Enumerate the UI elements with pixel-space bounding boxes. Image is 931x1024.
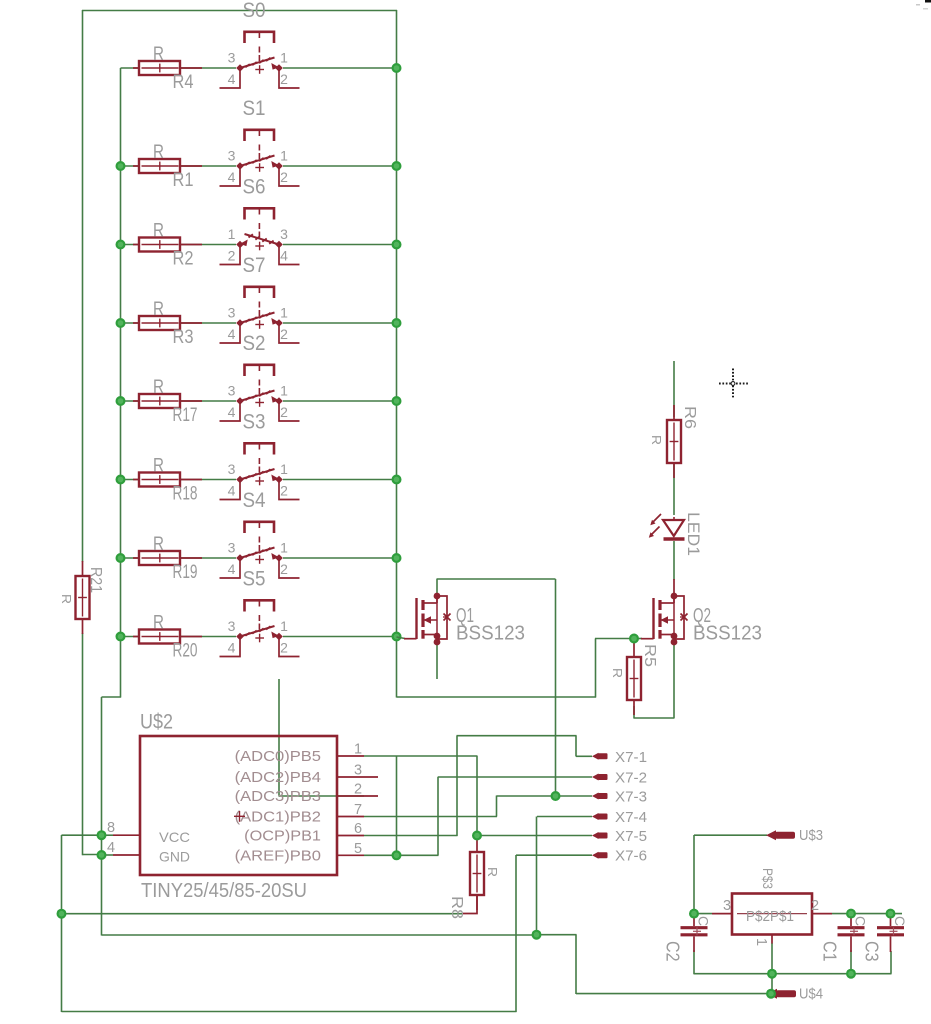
switch S6 bbox=[220, 176, 300, 265]
wire pin1 net vertical bbox=[476, 756, 478, 836]
svg-text:S6: S6 bbox=[243, 176, 266, 199]
svg-text:S1: S1 bbox=[243, 97, 266, 120]
junction S5 left bus bbox=[116, 632, 126, 642]
wire row S3 middle bbox=[180, 479, 236, 481]
switch S3 bbox=[220, 411, 300, 500]
svg-text:R3: R3 bbox=[173, 327, 194, 348]
svg-text:P$2: P$2 bbox=[746, 908, 770, 925]
resistor R4 bbox=[133, 44, 202, 93]
wire Q2 gate connector bbox=[634, 638, 642, 640]
junction S6 left bus bbox=[116, 240, 126, 250]
wire X7-4 vertical bbox=[536, 817, 538, 936]
svg-text:S0: S0 bbox=[243, 0, 266, 22]
svg-text:R21: R21 bbox=[87, 567, 104, 593]
svg-text:GND: GND bbox=[159, 849, 190, 865]
wire U$4 riser bbox=[771, 974, 773, 995]
svg-text:4: 4 bbox=[228, 483, 236, 499]
svg-text:R5: R5 bbox=[641, 644, 658, 667]
wire gnd rail to right riser bbox=[537, 934, 577, 936]
svg-text:X7-4: X7-4 bbox=[615, 810, 647, 826]
wire reg right rail bbox=[832, 913, 902, 915]
wire VCC pin wire bbox=[102, 834, 114, 836]
resistor R19 bbox=[133, 534, 202, 583]
wire row S7 left bbox=[121, 322, 140, 324]
svg-text:4: 4 bbox=[228, 71, 236, 87]
svg-text:(ADC2)PB4: (ADC2)PB4 bbox=[235, 769, 321, 786]
svg-text:VCC: VCC bbox=[159, 829, 190, 845]
junction S6 right bus bbox=[392, 240, 402, 250]
op-amp U1 substitute - IC U$2 body bbox=[140, 711, 337, 903]
svg-text:R6: R6 bbox=[681, 406, 698, 429]
wire row S1 middle bbox=[180, 165, 236, 167]
svg-text:R: R bbox=[153, 377, 164, 398]
connector pin X7-6 bbox=[592, 849, 647, 865]
switch S2 bbox=[220, 332, 300, 421]
wire pin6 net horizontal bbox=[364, 835, 458, 837]
screen corner artifact bbox=[916, 0, 931, 10]
junction node 7 bbox=[629, 634, 639, 644]
wire LED to Q2 drain bbox=[673, 541, 675, 596]
svg-text:4: 4 bbox=[107, 840, 115, 856]
wire reg left pin wire bbox=[694, 913, 712, 915]
wire row S3 right bbox=[283, 479, 397, 481]
svg-text:R: R bbox=[153, 44, 164, 65]
wire Q1 drain vertical to X7-3 bbox=[555, 579, 557, 796]
svg-text:U$3: U$3 bbox=[799, 828, 823, 844]
svg-text:1: 1 bbox=[753, 938, 769, 946]
LED LED1 bbox=[649, 512, 702, 556]
svg-text:4: 4 bbox=[228, 561, 236, 577]
svg-text:C2: C2 bbox=[663, 941, 683, 962]
transistor Q2 bbox=[641, 593, 762, 646]
pin 1 U$2 bbox=[235, 742, 364, 766]
wire C1 lower bbox=[850, 950, 852, 974]
wire left outer vertical (to R21 top) bbox=[82, 10, 84, 562]
wire row S1 right bbox=[283, 165, 397, 167]
wire row S7 middle bbox=[180, 322, 236, 324]
wire U$3 horizontal bbox=[694, 834, 767, 836]
wire R8-bottom horizontal bbox=[62, 913, 463, 915]
switch S4 bbox=[220, 489, 300, 578]
pin 8 U$2 bbox=[107, 820, 190, 845]
svg-text:X7-6: X7-6 bbox=[615, 849, 647, 865]
svg-text:2: 2 bbox=[280, 326, 288, 342]
origin cross U$2 bbox=[234, 811, 245, 822]
wire bottom-right riser X7-6 bbox=[515, 855, 517, 1012]
svg-text:C3: C3 bbox=[862, 941, 882, 962]
capacitor C3 bbox=[862, 916, 908, 962]
wire row S4 left bbox=[121, 557, 140, 559]
svg-text:R: R bbox=[153, 221, 164, 242]
wire row S0 middle bbox=[180, 67, 236, 69]
wire Q1 drain up bbox=[436, 579, 438, 596]
svg-text:R8: R8 bbox=[448, 896, 465, 919]
pin 7 U$2 bbox=[235, 802, 364, 826]
wire LED supply vertical bbox=[673, 361, 675, 417]
svg-text:2: 2 bbox=[280, 483, 288, 499]
wire left outer vertical (R21 bottom to GND row) bbox=[82, 633, 84, 855]
svg-text:R: R bbox=[153, 613, 164, 634]
wire row S4 right bbox=[283, 557, 397, 559]
resistor R5 bbox=[610, 642, 658, 715]
svg-text:3: 3 bbox=[228, 461, 236, 477]
svg-text:5: 5 bbox=[354, 841, 362, 857]
junction node 12 bbox=[846, 969, 856, 979]
pin 2 U$2 bbox=[235, 782, 378, 806]
svg-text:4: 4 bbox=[280, 248, 288, 264]
connector pin X7-5 bbox=[592, 829, 647, 845]
junction S0 right bus bbox=[392, 63, 402, 73]
svg-text:S5: S5 bbox=[243, 568, 266, 591]
wire row S5 left bbox=[121, 636, 140, 638]
wire X7-1 horizontal bbox=[576, 755, 592, 757]
svg-text:1: 1 bbox=[280, 305, 288, 321]
wire gnd rail horizontal bbox=[102, 934, 538, 936]
wire row S5 right bbox=[283, 636, 397, 638]
svg-text:3: 3 bbox=[228, 50, 236, 66]
wire X7-1 drop bbox=[575, 736, 577, 757]
svg-text:4: 4 bbox=[228, 640, 236, 656]
switch S1 bbox=[220, 97, 300, 186]
svg-text:R: R bbox=[610, 668, 625, 678]
junction S4 left bus bbox=[116, 553, 126, 563]
wire C2 lower bbox=[693, 950, 695, 974]
wire bottom rail to U$4 bbox=[576, 993, 770, 995]
svg-text:TINY25/45/85-20SU: TINY25/45/85-20SU bbox=[141, 880, 307, 902]
svg-text:4: 4 bbox=[228, 326, 236, 342]
wire right bus vertical bbox=[396, 10, 398, 698]
svg-text:1: 1 bbox=[354, 742, 362, 758]
svg-text:2: 2 bbox=[280, 640, 288, 656]
svg-text:R: R bbox=[153, 299, 164, 320]
svg-text:3: 3 bbox=[228, 618, 236, 634]
svg-text:R19: R19 bbox=[173, 562, 198, 583]
wire row S2 right bbox=[283, 400, 397, 402]
svg-text:U$4: U$4 bbox=[799, 987, 823, 1003]
svg-text:7: 7 bbox=[354, 802, 362, 818]
svg-text:S3: S3 bbox=[243, 411, 266, 434]
switch S7 bbox=[220, 254, 300, 343]
label S0 top bbox=[0, 0, 1, 1]
svg-text:S2: S2 bbox=[243, 332, 266, 355]
svg-text:1: 1 bbox=[228, 226, 236, 242]
switch S5 bbox=[220, 568, 300, 657]
wire Q2 source riser bbox=[673, 644, 675, 718]
wire pin7 net riser bbox=[496, 796, 498, 817]
resistor R21 bbox=[59, 561, 104, 634]
resistor R18 bbox=[133, 456, 202, 505]
svg-text:4: 4 bbox=[228, 404, 236, 420]
wire pin7 net horizontal bbox=[364, 816, 497, 818]
wire reg bottom wire bbox=[771, 943, 773, 974]
svg-text:3: 3 bbox=[354, 763, 362, 779]
capacitor C1 bbox=[820, 916, 868, 962]
wire X7-2 horizontal bbox=[438, 776, 592, 778]
svg-text:2: 2 bbox=[280, 169, 288, 185]
pin 6 U$2 bbox=[244, 821, 364, 845]
svg-text:2: 2 bbox=[280, 71, 288, 87]
svg-text:R2: R2 bbox=[173, 249, 194, 270]
svg-text:2: 2 bbox=[354, 782, 362, 798]
junction S1 left bus bbox=[116, 161, 126, 171]
junction node 6 bbox=[532, 930, 542, 940]
svg-text:1: 1 bbox=[280, 148, 288, 164]
wire R6 to LED bbox=[673, 462, 675, 515]
svg-text:3: 3 bbox=[723, 898, 731, 914]
connector pin X7-4 bbox=[592, 810, 647, 826]
svg-text:X7-5: X7-5 bbox=[615, 829, 647, 845]
svg-text:X7-2: X7-2 bbox=[615, 771, 647, 787]
connector pin X7-1 bbox=[592, 750, 647, 766]
junction S2 left bus bbox=[116, 396, 126, 406]
svg-text:1: 1 bbox=[280, 383, 288, 399]
wire left lower vertical bbox=[61, 835, 63, 1012]
wire top rail bbox=[82, 10, 397, 12]
svg-text:C: C bbox=[892, 916, 907, 926]
svg-text:R: R bbox=[153, 534, 164, 555]
svg-text:R: R bbox=[153, 142, 164, 163]
junction node 1 bbox=[97, 850, 107, 860]
wire row S0 left bbox=[121, 67, 140, 69]
svg-text:2: 2 bbox=[280, 561, 288, 577]
wire row S7 right bbox=[283, 322, 397, 324]
svg-text:C: C bbox=[696, 916, 711, 926]
svg-text:LED1: LED1 bbox=[684, 512, 702, 556]
svg-text:BSS123: BSS123 bbox=[693, 623, 762, 645]
junction S0 left bus bbox=[0, 0, 1, 1]
svg-text:X7-1: X7-1 bbox=[615, 750, 647, 766]
wire R5 bottom drop bbox=[633, 706, 635, 718]
supply U$3 bbox=[766, 828, 823, 844]
supply U$4 bbox=[767, 987, 823, 1003]
junction node 2 bbox=[57, 909, 67, 919]
wire pin5 net vertical bbox=[437, 777, 439, 856]
wire mid-left vertical to bottom bbox=[101, 697, 103, 936]
svg-text:8: 8 bbox=[107, 820, 115, 836]
wire left outer corner to GND junction bbox=[83, 854, 103, 856]
svg-text:R: R bbox=[153, 456, 164, 477]
svg-text:3: 3 bbox=[280, 226, 288, 242]
resistor R17 bbox=[133, 377, 202, 426]
junction S4 right bus bbox=[392, 553, 402, 563]
svg-text:(OCP)PB1: (OCP)PB1 bbox=[244, 828, 321, 845]
svg-text:S7: S7 bbox=[243, 254, 266, 277]
svg-text:(AREF)PB0: (AREF)PB0 bbox=[235, 847, 321, 864]
wire GND pin wire bbox=[102, 854, 114, 856]
svg-text:R: R bbox=[59, 594, 74, 604]
pin 5 U$2 bbox=[235, 841, 364, 865]
junction S5 right bus bbox=[392, 632, 402, 642]
resistor R20 bbox=[133, 613, 202, 662]
wire U$3 drop vertical bbox=[693, 835, 695, 914]
wire bus-to-Q2gate horizontal bbox=[397, 696, 597, 698]
wire Q2 gate riser bbox=[595, 639, 597, 698]
svg-text:4: 4 bbox=[228, 169, 236, 185]
resistor R3 bbox=[133, 299, 202, 348]
wire R5-Q2 source bottom bbox=[634, 717, 675, 719]
wire X7-4 horizontal bbox=[537, 816, 592, 818]
resistor R8 bbox=[448, 837, 500, 919]
wire C3 bottom riser bbox=[890, 951, 892, 974]
svg-text:BSS123: BSS123 bbox=[456, 623, 525, 645]
svg-text:S4: S4 bbox=[243, 489, 266, 512]
junction S7 right bus bbox=[392, 318, 402, 328]
junction node 0 bbox=[97, 830, 107, 840]
junction node 5 bbox=[551, 791, 561, 801]
svg-text:2: 2 bbox=[228, 248, 236, 264]
svg-text:P$1: P$1 bbox=[770, 908, 794, 925]
transistor Q1 bbox=[404, 593, 525, 646]
cursor crosshair bbox=[719, 369, 748, 400]
svg-text:(ADC1)PB2: (ADC1)PB2 bbox=[235, 809, 321, 826]
svg-text:R20: R20 bbox=[173, 641, 198, 662]
junction S2 right bus bbox=[392, 396, 402, 406]
switch S0 bbox=[220, 0, 300, 88]
wire bottom long rail bbox=[62, 1011, 517, 1013]
junction node 11 bbox=[767, 969, 777, 979]
wire row S0 right bbox=[283, 67, 397, 69]
svg-text:C1: C1 bbox=[820, 941, 840, 962]
wire pin2 net stub vertical bbox=[278, 679, 280, 797]
wire riser down right bbox=[575, 935, 577, 995]
connector pin X7-3 bbox=[592, 790, 647, 806]
svg-text:U$2: U$2 bbox=[140, 711, 173, 734]
svg-text:R17: R17 bbox=[173, 405, 198, 426]
junction node 13 bbox=[766, 989, 776, 999]
wire Q1 gate connector bbox=[397, 637, 406, 639]
svg-text:3: 3 bbox=[228, 540, 236, 556]
capacitor C2 bbox=[663, 916, 711, 962]
junction node 4 bbox=[392, 850, 402, 860]
svg-text:R: R bbox=[649, 435, 664, 445]
svg-text:1: 1 bbox=[280, 461, 288, 477]
svg-text:2: 2 bbox=[280, 404, 288, 420]
wire inner bus jog horizontal bbox=[102, 696, 122, 698]
junction node 8 bbox=[689, 909, 699, 919]
wire row S6 left bbox=[121, 244, 140, 246]
wire left inner bus vertical bbox=[120, 68, 122, 698]
svg-text:1: 1 bbox=[280, 618, 288, 634]
wire vcc row to left bbox=[62, 834, 103, 836]
junction node 3 bbox=[472, 831, 482, 841]
svg-text:(ADC3)PB3: (ADC3)PB3 bbox=[235, 788, 321, 805]
wire row S1 left bbox=[121, 165, 140, 167]
junction node 9 bbox=[846, 909, 856, 919]
wire pin5 branch vertical bbox=[396, 757, 398, 856]
junction S3 left bus bbox=[116, 475, 126, 485]
wire row S2 middle bbox=[180, 400, 236, 402]
svg-text:(ADC0)PB5: (ADC0)PB5 bbox=[235, 748, 321, 765]
wire pin1 net horizontal bbox=[364, 755, 478, 757]
svg-text:2: 2 bbox=[811, 898, 819, 914]
svg-text:C: C bbox=[853, 916, 868, 926]
wire Q1 drain horizontal bbox=[437, 578, 556, 580]
wire X7-3 horizontal bbox=[497, 795, 593, 797]
wire Q1 source stub bbox=[436, 643, 438, 679]
wire pin5 net horizontal bbox=[364, 854, 439, 856]
wire Q2 gate horizontal bbox=[595, 638, 634, 640]
regulator P$2/P$1 bbox=[712, 868, 832, 946]
svg-text:6: 6 bbox=[354, 821, 362, 837]
svg-text:P$3: P$3 bbox=[760, 868, 776, 889]
pin 4 U$2 bbox=[107, 840, 190, 865]
svg-text:3: 3 bbox=[228, 148, 236, 164]
svg-text:3: 3 bbox=[228, 383, 236, 399]
svg-text:R1: R1 bbox=[173, 170, 194, 191]
junction S7 left bus bbox=[116, 318, 126, 328]
junction S3 right bus bbox=[392, 475, 402, 485]
resistor R2 bbox=[133, 221, 202, 270]
svg-text:1: 1 bbox=[280, 50, 288, 66]
svg-text:3: 3 bbox=[228, 305, 236, 321]
wire row S3 left bbox=[121, 479, 140, 481]
wire row S6 right bbox=[283, 244, 397, 246]
junction node 10 bbox=[886, 909, 896, 919]
wire pin2 net horizontal bbox=[279, 795, 364, 797]
svg-text:R18: R18 bbox=[173, 484, 198, 505]
wire row S5 middle bbox=[180, 636, 236, 638]
pin 3 U$2 bbox=[235, 763, 378, 787]
wire row S4 middle bbox=[180, 557, 236, 559]
resistor R1 bbox=[133, 142, 202, 191]
wire X7-5 horizontal bbox=[477, 835, 592, 837]
wire pin6 net vertical bbox=[456, 736, 458, 836]
junction S1 right bus bbox=[392, 161, 402, 171]
wire row S6 middle bbox=[180, 244, 236, 246]
svg-text:R: R bbox=[485, 867, 500, 877]
resistor R6 bbox=[649, 405, 698, 478]
wire X7-1 loop horizontal bbox=[457, 735, 577, 737]
wire row S2 left bbox=[121, 400, 140, 402]
svg-text:1: 1 bbox=[280, 540, 288, 556]
svg-text:R4: R4 bbox=[173, 72, 194, 93]
wire bottom cap rail bbox=[694, 973, 892, 975]
connector pin X7-2 bbox=[592, 771, 647, 787]
svg-text:X7-3: X7-3 bbox=[615, 790, 647, 806]
wire X7-6 horizontal bbox=[516, 854, 592, 856]
